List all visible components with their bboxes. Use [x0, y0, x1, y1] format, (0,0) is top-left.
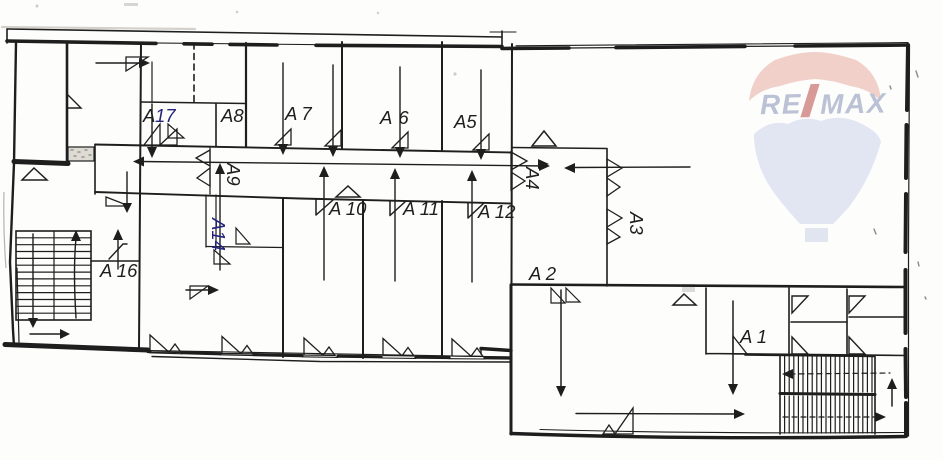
wall: bottom right thin — [540, 430, 905, 433]
wall: vertical x511 lower — [510, 285, 513, 434]
door flag room1 — [792, 296, 808, 313]
stairs BR mid rail — [780, 394, 875, 395]
svg-text:A7: A7 — [284, 103, 316, 124]
door flag room4 — [849, 337, 865, 354]
wall: vertical x442 upper — [441, 42, 443, 150]
wall: below-corridor x283 — [282, 199, 284, 357]
door swing near corridor left — [106, 197, 129, 206]
right outer thin line — [909, 45, 910, 436]
stairs BR up arrow — [891, 386, 893, 406]
exit arrow right x188 — [186, 289, 212, 291]
stairs left box — [16, 231, 91, 320]
wall: vertical x246 — [245, 43, 247, 147]
jamb line entry — [151, 62, 153, 102]
arrow into A4 — [538, 159, 549, 169]
wall: left inner lower — [17, 268, 19, 342]
wall: vertical x512 upper — [511, 44, 514, 285]
wall: top band bottom thick — [7, 41, 156, 43]
door flag room3 — [792, 337, 808, 354]
wall: top band top line — [7, 29, 502, 37]
wall: bottom left lower thin — [152, 357, 511, 363]
A16 door slash — [109, 244, 127, 259]
stairs left treads — [16, 238, 91, 313]
door pair bottom right room — [603, 425, 615, 434]
storage hatch box — [68, 147, 94, 161]
long exit arrow bottom — [576, 413, 737, 416]
door triangle on A4 top — [532, 131, 556, 146]
jamb + chevrons A9 door — [209, 148, 211, 194]
svg-text:A14: A14 — [208, 217, 229, 251]
wall: A14 box vertical — [205, 195, 207, 247]
small down arrow x127 — [126, 172, 128, 205]
A2 door marks — [551, 288, 565, 303]
A4 room box — [512, 148, 607, 287]
wall: dashed divider x194 — [193, 43, 195, 102]
stairs down arrow — [32, 234, 34, 320]
wall: junction notch at section joint — [481, 349, 511, 351]
wall: corridor top — [95, 145, 511, 153]
wall: corridor left edge — [94, 145, 96, 194]
wall: vertical x216 — [215, 104, 217, 147]
wall: right section mid y285 — [511, 285, 905, 288]
wall: below-corridor x442 — [441, 201, 443, 358]
svg-text:A: A — [142, 105, 155, 126]
door jamb and slash A11 — [390, 201, 406, 216]
up arrow A10 — [323, 175, 325, 280]
balloon blue envelope — [754, 118, 881, 224]
door jamb and slash A10 — [316, 200, 333, 216]
bottom wall door pair 3 — [304, 338, 335, 355]
door flag at entry — [126, 57, 148, 71]
down arrow A7 left — [282, 63, 284, 145]
A3 door chevrons lower — [607, 209, 622, 244]
corridor long arrow — [140, 162, 544, 167]
door swings A17 — [144, 124, 160, 145]
up arrow A9 — [219, 172, 221, 270]
corridor door triangle above A10 — [336, 186, 360, 197]
wall: step at band end — [501, 31, 503, 49]
stairs BR box — [745, 355, 875, 434]
door swing A7 right — [325, 130, 341, 146]
wall: A14 box horizontal — [206, 247, 283, 248]
scan smudge top left — [2, 27, 195, 29]
stairs BR lower treads — [785, 396, 872, 433]
down arrow A17 — [151, 104, 153, 148]
door triangle left room — [22, 168, 47, 180]
arrow from right room — [572, 166, 690, 169]
small rooms divider y322 left — [791, 321, 847, 323]
down arrow A6 — [399, 67, 401, 148]
svg-text:A 16: A 16 — [99, 260, 138, 281]
door swing A6 — [392, 132, 408, 148]
wall: bottom right thick — [511, 434, 905, 438]
svg-text:MAX: MAX — [820, 87, 888, 120]
wall: horizontal y102 — [141, 102, 246, 104]
svg-text:A8: A8 — [220, 105, 244, 126]
wall: A14 box vertical right — [215, 195, 217, 246]
scan speckles — [36, 3, 696, 292]
svg-text:A3: A3 — [626, 211, 647, 235]
wall: right section top gap thin — [569, 46, 795, 48]
scan ghost line left margin — [4, 192, 6, 268]
svg-text:RE: RE — [760, 88, 803, 120]
svg-text:A6: A6 — [379, 107, 415, 128]
door swing A7 left — [275, 129, 291, 145]
up arrow A12 — [471, 179, 473, 282]
wall: right outer — [906, 45, 909, 436]
up arrow A11 — [394, 177, 396, 281]
svg-text:17: 17 — [155, 105, 176, 126]
svg-text:A 12: A 12 — [477, 201, 516, 222]
door jamb and slash A12 — [468, 203, 484, 219]
A1 room box — [706, 288, 905, 356]
bottom wall door pair 4 — [383, 339, 414, 356]
small rooms divider y317 right — [849, 316, 904, 318]
entry arrow into top room — [96, 62, 142, 64]
door swing A5 — [473, 134, 489, 150]
wall: bottom left sill thin lines — [150, 351, 511, 357]
stairs BR walk line down — [783, 416, 878, 418]
chevrons on x512 wall — [511, 152, 527, 190]
wall: top band gap thin line — [7, 42, 502, 47]
wall: thick horizontal y162 — [14, 162, 68, 164]
wall: vertical x141 — [139, 43, 141, 349]
door swings A14 — [236, 228, 250, 244]
balloon red dome — [749, 52, 881, 101]
stairs left divider — [53, 231, 55, 320]
wall: vertical x67 — [66, 43, 69, 163]
wall: vertical x342 — [341, 42, 343, 149]
small rooms divider x847 — [846, 289, 848, 354]
RE/MAX wordmark — [760, 82, 888, 121]
wall: right section top thick — [502, 45, 908, 49]
stairs BR walk line up — [790, 373, 890, 374]
wall: right section top thin overline — [516, 43, 908, 46]
A1 down arrow — [732, 301, 734, 387]
svg-text:A5: A5 — [453, 111, 477, 132]
stairs exit arrow — [30, 333, 64, 335]
A2 down arrow — [560, 290, 562, 389]
door swing at wall x67 — [67, 94, 81, 108]
bottom wall door pair 2 — [222, 337, 253, 354]
door triangle x684 — [673, 294, 696, 305]
svg-text:A 10: A 10 — [328, 198, 367, 219]
wall: band left cap — [6, 29, 8, 43]
stairs BR upper treads — [785, 356, 872, 392]
svg-text:A 2: A 2 — [528, 263, 557, 284]
balloon logo watermark — [749, 52, 888, 242]
A3 door chevrons upper — [607, 159, 622, 196]
stairs up arrow — [75, 238, 77, 318]
A1 door swing — [733, 336, 747, 354]
down arrow A5 — [480, 70, 482, 150]
balloon basket — [805, 228, 828, 242]
A16 up arrow — [117, 238, 119, 269]
door flag room2 — [849, 296, 865, 313]
bottom wall door pair 1 — [150, 335, 181, 352]
wall: corridor bottom — [95, 192, 511, 204]
wall: left outer — [10, 43, 16, 346]
down arrow A7 right — [332, 65, 334, 147]
wall: bottom left thick — [5, 345, 148, 351]
svg-text:A4: A4 — [522, 166, 543, 190]
wall: bottom left thick segs with door sills — [148, 352, 511, 359]
wall: below-corridor x363 — [362, 200, 364, 358]
svg-text:A9: A9 — [223, 162, 244, 186]
svg-text:A 11: A 11 — [402, 198, 439, 219]
wall: A16 top line — [91, 260, 139, 262]
svg-text:A 1: A 1 — [739, 326, 767, 347]
bottom wall door pair 5 — [452, 339, 483, 356]
